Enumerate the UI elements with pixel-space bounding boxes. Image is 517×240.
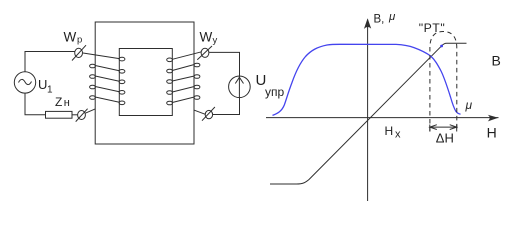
wire [194,110,205,114]
axis H horizontal [266,115,499,122]
svg-text:1: 1 [47,85,53,96]
winding Wy [167,52,202,105]
curve PT saturation level [442,43,467,46]
wire [25,52,75,72]
point knee [440,45,443,48]
svg-text:н: н [64,97,70,109]
wire [85,109,95,113]
svg-text:U: U [38,77,47,92]
curve mu(H) blue [273,44,461,115]
terminal Wy [197,46,212,60]
wire [25,93,46,115]
svg-text:W: W [200,29,213,44]
terminal Wp [72,45,86,60]
source Uupr [229,76,251,98]
curve B(H) [270,46,441,184]
label Uupr [256,72,285,99]
svg-text:"PT": "PT" [419,21,445,35]
label mu right [465,98,473,112]
arrow delta-H [430,125,457,132]
label U1 [38,77,53,96]
label H axis [487,124,497,140]
svg-text:μ: μ [388,11,396,23]
terminal (load side) [76,109,88,122]
label delta-H [436,131,454,146]
svg-text:ΔH: ΔH [436,131,454,146]
wire [209,52,239,76]
svg-text:H: H [385,124,394,138]
resistor Zн [46,111,73,118]
label Wp [64,29,83,45]
svg-text:H: H [487,124,497,140]
label B right [492,53,501,69]
label PT [419,21,445,35]
label Zн [55,95,70,109]
svg-text:W: W [64,29,77,44]
label Wy [200,29,218,46]
svg-text:упр: упр [265,85,284,99]
svg-text:μ: μ [465,98,473,112]
terminal (control side) [202,107,215,121]
svg-text:х: х [395,129,401,141]
source U1 [14,72,35,93]
svg-text:y: y [213,35,218,46]
callout dashed bracket PT [430,32,457,132]
svg-text:B: B [492,53,501,69]
transformer core window [119,49,172,116]
label Hx [385,124,402,141]
wire [72,114,78,116]
wire [213,98,240,115]
svg-text:p: p [77,35,82,46]
svg-text:B,: B, [374,14,385,26]
transformer core outer [95,22,194,144]
axis B vertical [364,18,371,201]
svg-text:Z: Z [55,95,62,109]
winding Wp [83,53,125,105]
label B,mu axis [374,11,397,26]
